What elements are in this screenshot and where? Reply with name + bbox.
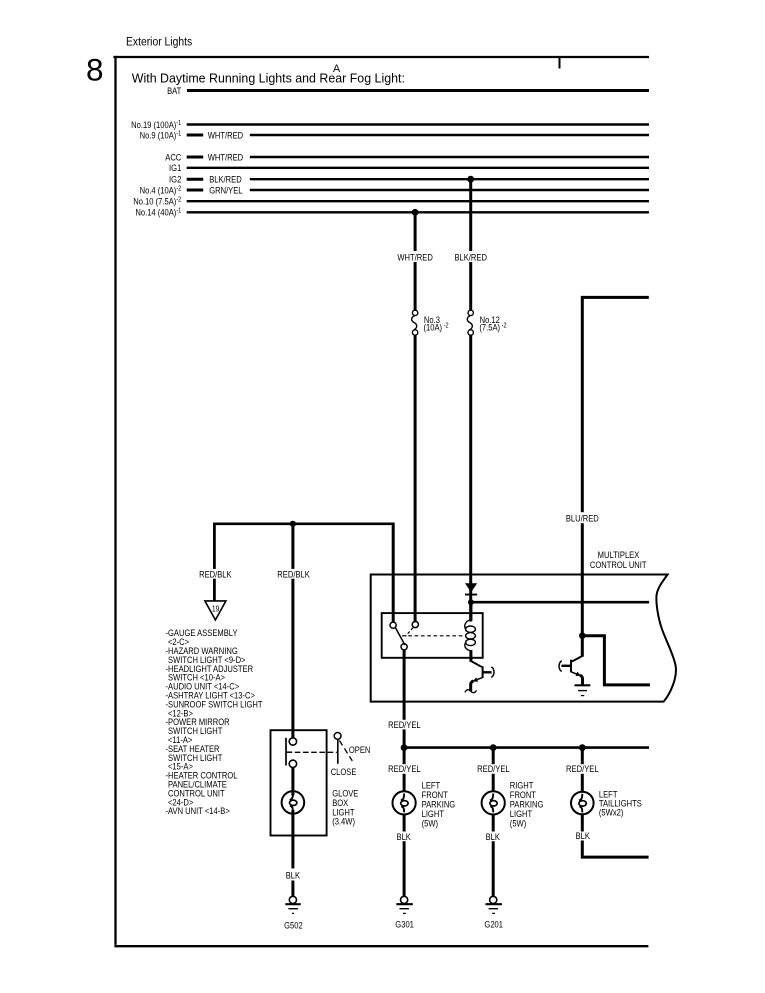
svg-text:WHT/RED: WHT/RED bbox=[208, 129, 243, 140]
junction dot bus middle bbox=[490, 744, 497, 751]
svg-text:BLK: BLK bbox=[397, 831, 412, 842]
left front parking light labels bbox=[422, 780, 456, 829]
svg-text:IG2: IG2 bbox=[169, 174, 181, 185]
lamp glove box light bbox=[282, 791, 305, 814]
svg-text:RED/BLK: RED/BLK bbox=[277, 568, 310, 579]
wire glove box drop bbox=[291, 524, 294, 738]
svg-text:No.4 (10A)-2: No.4 (10A)-2 bbox=[140, 184, 182, 195]
relay linkage dashes diagonal bbox=[406, 628, 413, 637]
relay coil L1 bbox=[465, 620, 471, 630]
lamp right front parking light bbox=[482, 791, 505, 814]
node RED/BLK label 1 bbox=[198, 569, 236, 579]
wire relay feed drop bbox=[392, 523, 395, 623]
multiplex control unit box U1 bbox=[371, 575, 676, 702]
svg-text:BLK: BLK bbox=[286, 870, 301, 881]
wire from diode dot to right bbox=[471, 601, 649, 604]
wire IG2 bus bbox=[250, 178, 649, 180]
wire No.14 bus bbox=[187, 211, 649, 213]
ground (Q2 emitter) bbox=[575, 684, 591, 686]
wire to G502 bbox=[291, 881, 294, 897]
wire IG2 stub bbox=[187, 178, 204, 181]
wire switch to glove bulb bbox=[291, 768, 294, 796]
svg-text:RED/YEL: RED/YEL bbox=[566, 763, 599, 774]
wire No.4 bus bbox=[250, 189, 649, 191]
svg-text:Exterior Lights: Exterior Lights bbox=[126, 36, 193, 49]
linkage dashes to lever bbox=[295, 751, 337, 753]
wire No.4 stub bbox=[187, 189, 204, 192]
wire taillights ground elbow bbox=[581, 814, 584, 831]
lever pivot circle bbox=[334, 733, 341, 740]
wire ACC stub bbox=[187, 156, 204, 159]
wire ACC bus bbox=[250, 156, 649, 158]
svg-text:IG1: IG1 bbox=[169, 162, 181, 173]
right front parking light labels bbox=[510, 780, 544, 829]
svg-text:CONTROL UNIT: CONTROL UNIT bbox=[590, 559, 647, 570]
svg-text:WHT/RED: WHT/RED bbox=[208, 151, 243, 162]
node BLK/RED vertical label bbox=[453, 251, 489, 262]
lever arm OPEN position dashes bbox=[339, 741, 352, 761]
glove box switch plunger bbox=[285, 738, 287, 766]
node RED/YEL label top bbox=[387, 720, 422, 730]
left taillights labels bbox=[599, 788, 642, 817]
wire coil bottom to transistor bbox=[469, 650, 472, 662]
wire elbow to right bbox=[582, 636, 650, 685]
transistor Q1 bbox=[471, 661, 482, 667]
svg-text:No.14 (40A)-1: No.14 (40A)-1 bbox=[135, 207, 181, 218]
svg-text:BAT: BAT bbox=[167, 85, 182, 96]
wire coil top bbox=[469, 602, 472, 620]
junction dot bus right bbox=[579, 744, 586, 751]
svg-text:(5W): (5W) bbox=[510, 818, 527, 829]
relay contact 1 bbox=[390, 622, 396, 628]
glove box light labels bbox=[332, 788, 358, 827]
wire BLK to G301 bbox=[403, 841, 406, 896]
glove box switch contacts bbox=[289, 738, 296, 745]
glove box assembly box bbox=[271, 730, 327, 835]
svg-text:RED/YEL: RED/YEL bbox=[388, 763, 421, 774]
wire relay output down bbox=[403, 650, 406, 748]
svg-text:No.9 (10A)-1: No.9 (10A)-1 bbox=[140, 129, 182, 140]
border frame top bbox=[113, 56, 649, 58]
svg-text:BLK: BLK bbox=[486, 831, 501, 842]
relay contact common bbox=[401, 644, 407, 650]
wire left parking to ground bbox=[403, 814, 406, 832]
svg-text:G301: G301 bbox=[395, 919, 414, 930]
node RED/BLK label 2 bbox=[277, 569, 315, 579]
svg-text:(5W): (5W) bbox=[422, 818, 439, 829]
wire continuation squiggle bbox=[465, 690, 477, 693]
junction dot BLU/RED branch bbox=[579, 632, 586, 639]
svg-text:WHT/RED: WHT/RED bbox=[397, 252, 432, 263]
svg-text:OPEN: OPEN bbox=[349, 744, 371, 755]
svg-text:BLK/RED: BLK/RED bbox=[454, 252, 486, 263]
connector mark A tick bbox=[559, 57, 561, 69]
svg-text:With Daytime Running Lights an: With Daytime Running Lights and Rear Fog… bbox=[132, 70, 405, 85]
wire WHT/RED vertical bbox=[414, 212, 417, 310]
wire RED/YEL bus bbox=[404, 746, 649, 749]
svg-text:ACC: ACC bbox=[165, 151, 181, 162]
wire drop taillights bbox=[581, 748, 584, 792]
svg-text:CLOSE: CLOSE bbox=[331, 766, 357, 777]
wire No.10 bus bbox=[187, 200, 649, 202]
wire No.19 bus bbox=[187, 123, 649, 125]
ground G201 bbox=[490, 896, 497, 903]
wire BLK/RED vertical bbox=[469, 179, 472, 310]
junction dot bus left bbox=[401, 744, 408, 751]
ground G502 bbox=[289, 896, 296, 903]
svg-text:RED/YEL: RED/YEL bbox=[477, 763, 510, 774]
wire taillight BLK elbow to right bbox=[582, 841, 648, 858]
junction dot below diode bbox=[468, 599, 474, 605]
svg-text:RED/BLK: RED/BLK bbox=[199, 568, 232, 579]
node WHT/RED vertical label bbox=[396, 251, 434, 262]
svg-text:No.10 (7.5A)-2: No.10 (7.5A)-2 bbox=[133, 196, 181, 207]
svg-text:BLK/RED: BLK/RED bbox=[209, 174, 241, 185]
transistor Q2 bbox=[572, 656, 582, 662]
wire BAT bus bbox=[187, 89, 649, 92]
component list bbox=[166, 627, 264, 816]
node BLU/RED label bbox=[565, 512, 601, 523]
relay contact 2 bbox=[412, 621, 418, 627]
svg-text:19: 19 bbox=[212, 604, 220, 614]
wire RED/BLK left drop bbox=[213, 523, 216, 601]
junction dot on No.14 bbox=[412, 209, 419, 216]
wire BLK/RED below fuse into control unit bbox=[469, 335, 472, 621]
wire glove bulb down bbox=[291, 810, 294, 868]
ground G301 bbox=[401, 896, 408, 903]
relay switch arm bbox=[395, 628, 405, 645]
fuse No.12 symbol bbox=[468, 310, 473, 315]
junction dot on IG2 bbox=[467, 176, 474, 183]
svg-text:RED/YEL: RED/YEL bbox=[388, 719, 421, 730]
svg-text:G502: G502 bbox=[284, 920, 303, 931]
relay linkage dashes horizontal bbox=[402, 635, 466, 637]
junction dot RED/BLK bbox=[290, 521, 296, 527]
lamp left front parking light bbox=[393, 791, 416, 814]
wire RED/BLK horizontal bbox=[214, 522, 393, 525]
lamp left taillights bbox=[571, 792, 594, 815]
svg-text:(5Wx2): (5Wx2) bbox=[599, 806, 624, 817]
lever arm CLOSE position bbox=[337, 739, 339, 763]
wire IG1 bus bbox=[187, 167, 649, 169]
svg-text:-AVN UNIT <14-B>: -AVN UNIT <14-B> bbox=[166, 805, 230, 816]
node RED/YEL label 3 bbox=[476, 764, 511, 774]
arrow connector 19 bbox=[205, 601, 226, 620]
svg-text:(3.4W): (3.4W) bbox=[332, 816, 355, 827]
node RED/YEL label 4 bbox=[565, 764, 600, 774]
relay box bbox=[382, 613, 483, 658]
fuse No.3 symbol bbox=[412, 310, 417, 315]
border frame bottom bbox=[114, 945, 648, 947]
node RED/YEL label 2 bbox=[387, 764, 422, 774]
svg-text:GRN/YEL: GRN/YEL bbox=[209, 184, 243, 195]
border frame left bbox=[114, 56, 116, 945]
wire right parking to ground bbox=[492, 814, 495, 832]
svg-text:BLU/RED: BLU/RED bbox=[566, 513, 599, 524]
wire BLK to G201 bbox=[492, 841, 495, 896]
svg-text:BLK: BLK bbox=[576, 830, 591, 841]
wire WHT/RED below fuse to relay bbox=[414, 335, 417, 622]
wire drop right parking bbox=[492, 748, 495, 792]
wire drop left parking bbox=[403, 748, 406, 792]
svg-text:G201: G201 bbox=[484, 919, 503, 930]
svg-text:8: 8 bbox=[86, 52, 104, 88]
svg-text:No.19 (100A)-1: No.19 (100A)-1 bbox=[131, 119, 182, 130]
wire No.9 stub bbox=[187, 134, 204, 137]
wire No.9 bus bbox=[250, 134, 649, 136]
wire BLU/RED top elbow bbox=[582, 297, 649, 656]
diode D1 bbox=[465, 583, 477, 592]
